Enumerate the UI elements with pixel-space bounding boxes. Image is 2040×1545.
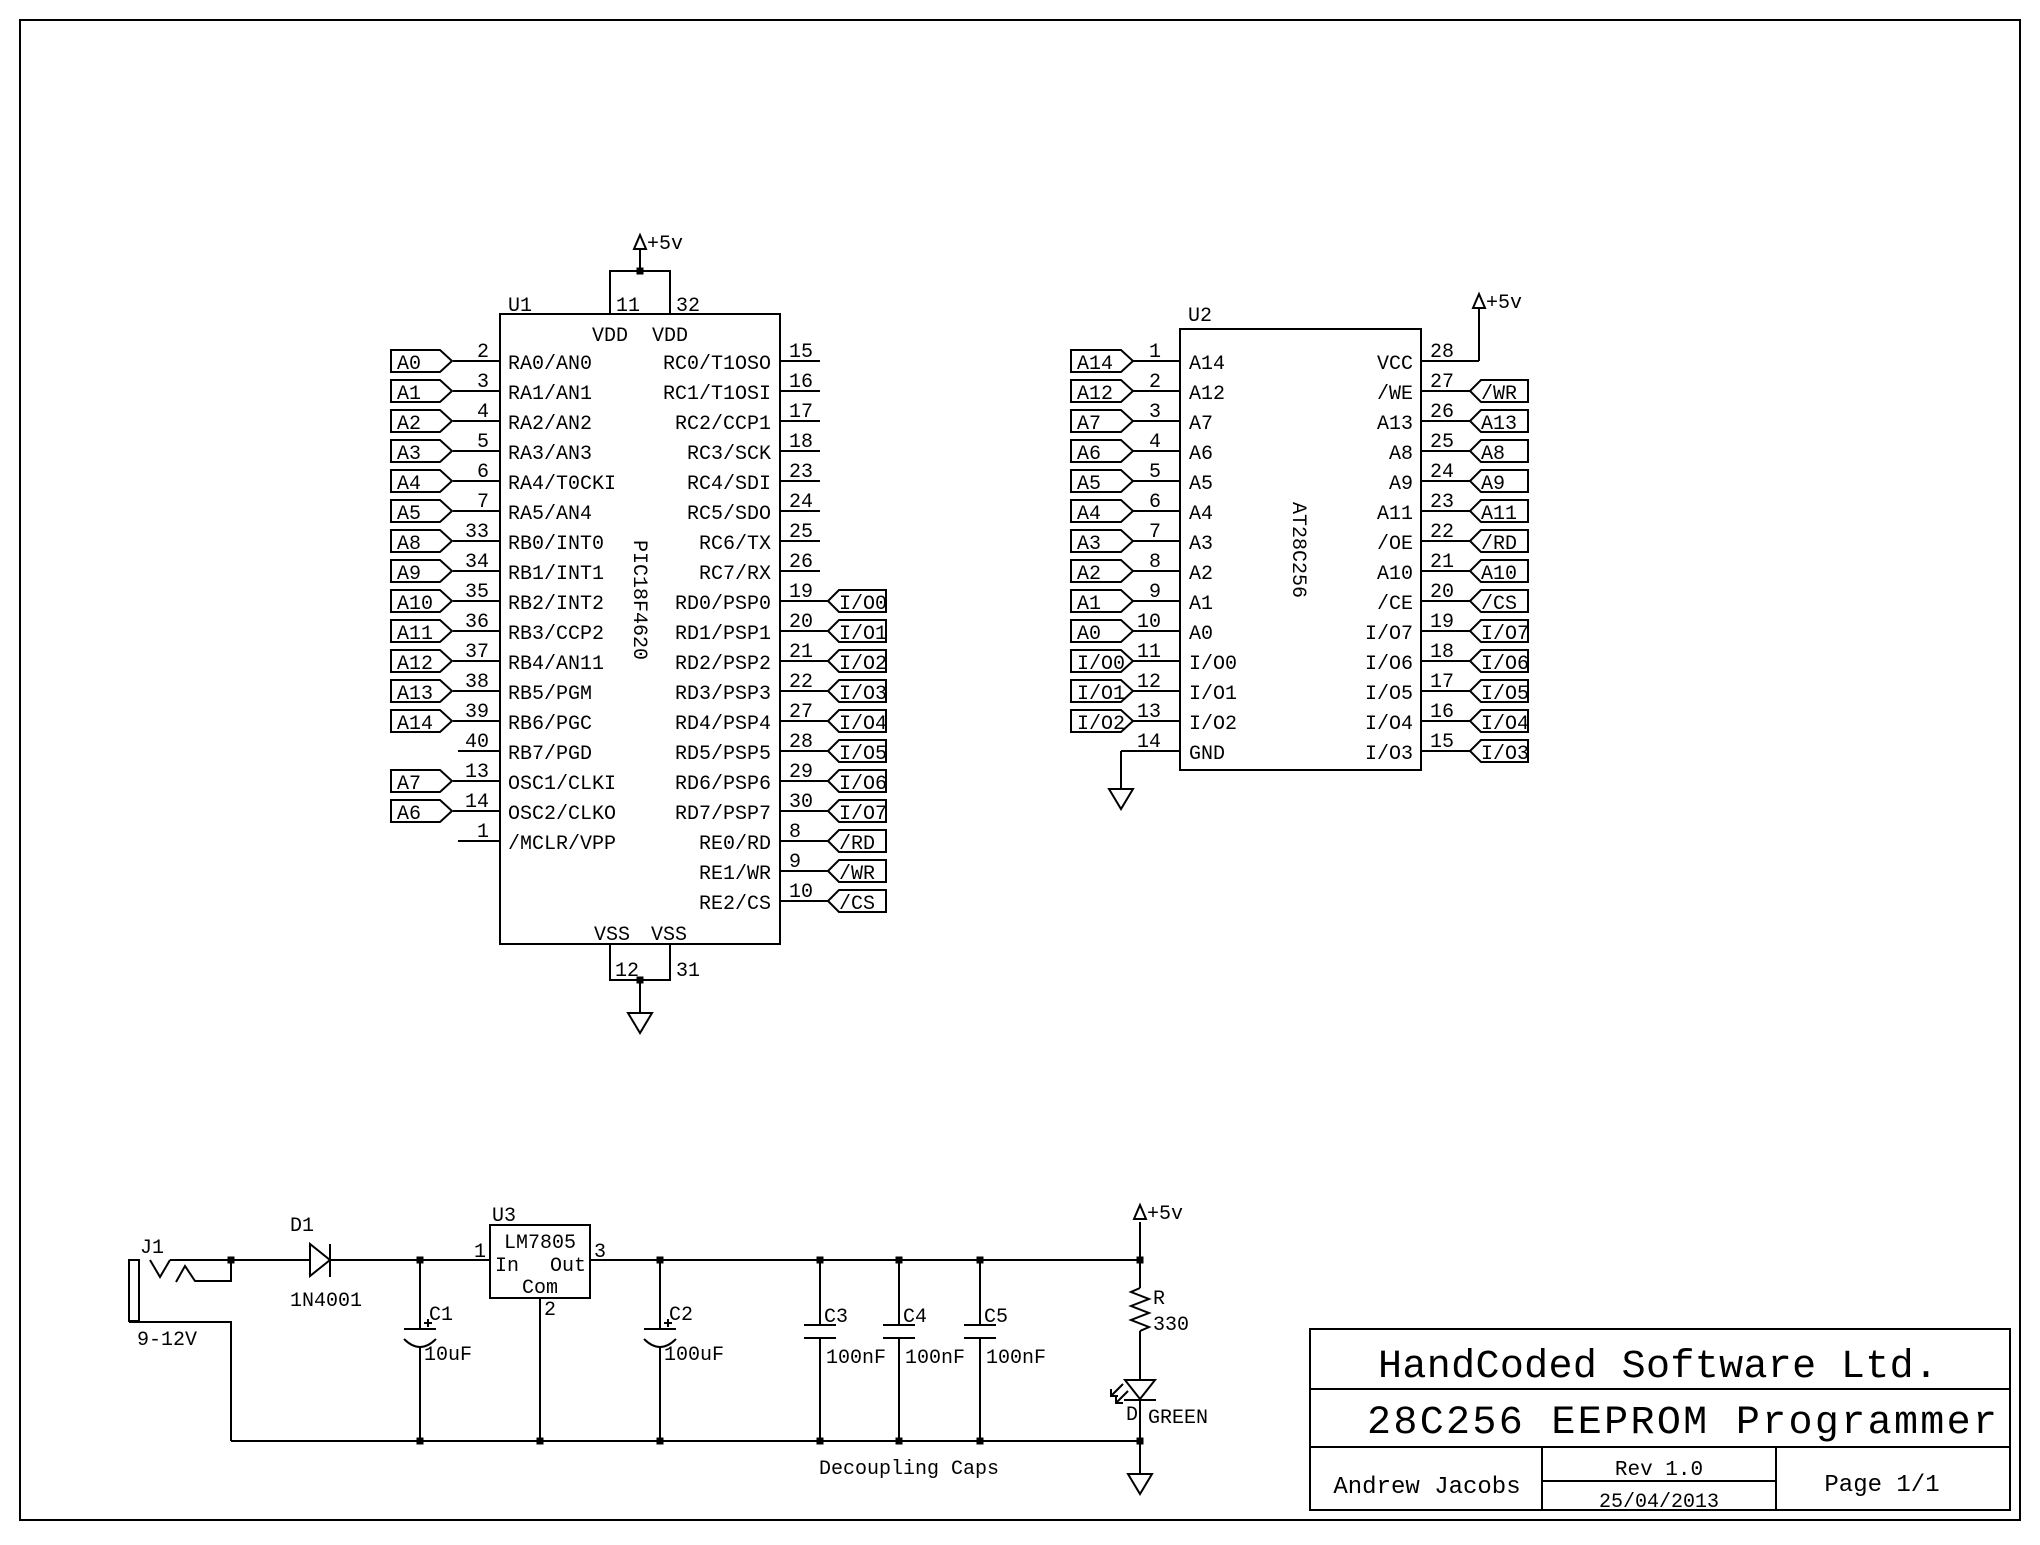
- U1 VSS power connector (pins 12, 31): [594, 924, 700, 983]
- svg-text:4: 4: [477, 401, 489, 424]
- svg-text:RC0/T1OSO: RC0/T1OSO: [663, 353, 771, 376]
- node A1 flag: [391, 380, 452, 406]
- U1 pin 30 RD7/PSP7 wire: [675, 791, 828, 826]
- wire U2 GND to ground: [1120, 751, 1122, 789]
- node I/O1 flag: [828, 620, 887, 646]
- svg-text:A3: A3: [397, 443, 421, 466]
- node A12 flag: [391, 650, 452, 676]
- connector J1 DC jack 9-12V: [129, 1237, 231, 1352]
- svg-text:C3: C3: [824, 1306, 848, 1329]
- svg-text:27: 27: [789, 701, 813, 724]
- capacitor C1 10uF: [404, 1260, 472, 1441]
- svg-text:100nF: 100nF: [905, 1347, 965, 1370]
- svg-text:9: 9: [1149, 581, 1161, 604]
- U1 pin 7 RA5/AN4 wire: [453, 491, 592, 526]
- svg-text:RC5/SDO: RC5/SDO: [687, 503, 771, 526]
- junction: [657, 1438, 664, 1445]
- svg-text:A13: A13: [1481, 413, 1517, 436]
- svg-text:26: 26: [1430, 401, 1454, 424]
- U1 pin 36 RB3/CCP2 wire: [453, 611, 604, 646]
- junction: [977, 1438, 984, 1445]
- svg-text:I/O0: I/O0: [839, 593, 887, 616]
- svg-text:I/O1: I/O1: [1189, 683, 1237, 706]
- svg-text:OSC2/CLKO: OSC2/CLKO: [508, 803, 616, 826]
- svg-text:31: 31: [676, 960, 700, 983]
- node A7 flag: [1071, 410, 1133, 436]
- node A0 flag: [1071, 620, 1133, 646]
- ground (U1): [628, 1013, 652, 1033]
- svg-text:/RD: /RD: [839, 833, 875, 856]
- svg-text:16: 16: [789, 371, 813, 394]
- node /RD flag: [828, 830, 886, 856]
- svg-text:12: 12: [615, 960, 639, 983]
- node I/O3 flag: [1470, 740, 1529, 766]
- wire jack tip to D1: [170, 1259, 309, 1261]
- U2 pin 3 A7 wire: [1133, 401, 1213, 436]
- svg-text:I/O0: I/O0: [1189, 653, 1237, 676]
- svg-text:1: 1: [474, 1241, 486, 1264]
- svg-text:19: 19: [789, 581, 813, 604]
- svg-text:RE1/WR: RE1/WR: [699, 863, 771, 886]
- svg-text:15: 15: [1430, 731, 1454, 754]
- svg-text:A10: A10: [1377, 563, 1413, 586]
- svg-text:21: 21: [1430, 551, 1454, 574]
- ground (power rail): [1128, 1474, 1152, 1494]
- svg-text:I/O5: I/O5: [839, 743, 887, 766]
- svg-text:37: 37: [465, 641, 489, 664]
- svg-text:I/O6: I/O6: [1365, 653, 1413, 676]
- svg-text:I/O2: I/O2: [1189, 713, 1237, 736]
- svg-text:A1: A1: [1189, 593, 1213, 616]
- svg-text:A14: A14: [1189, 353, 1225, 376]
- U1 pin 26 RC7/RX wire: [699, 551, 820, 586]
- svg-text:I/O2: I/O2: [839, 653, 887, 676]
- svg-text:RA2/AN2: RA2/AN2: [508, 413, 592, 436]
- svg-text:24: 24: [1430, 461, 1454, 484]
- svg-text:13: 13: [465, 761, 489, 784]
- junction: [657, 1257, 664, 1264]
- node I/O0 flag: [1071, 650, 1133, 676]
- U2 pin 10 A0 wire: [1133, 611, 1213, 646]
- svg-text:6: 6: [477, 461, 489, 484]
- U1 pin 9 RE1/WR wire: [699, 851, 828, 886]
- svg-text:/RD: /RD: [1481, 533, 1517, 556]
- svg-text:I/O7: I/O7: [1365, 623, 1413, 646]
- U2 pin 12 I/O1 wire: [1133, 671, 1237, 706]
- capacitor C5 100nF: [964, 1260, 1046, 1441]
- svg-text:A11: A11: [397, 623, 433, 646]
- svg-text:100nF: 100nF: [826, 1347, 886, 1370]
- node /CS flag: [1470, 590, 1528, 616]
- svg-text:29: 29: [789, 761, 813, 784]
- svg-text:1: 1: [1149, 341, 1161, 364]
- U2 pin 5 A5 wire: [1133, 461, 1213, 496]
- U2 pin 2 A12 wire: [1133, 371, 1225, 406]
- U2 pin 21 A10 wire: [1377, 551, 1470, 586]
- svg-text:RE2/CS: RE2/CS: [699, 893, 771, 916]
- svg-text:A14: A14: [1077, 353, 1113, 376]
- svg-text:A9: A9: [1389, 473, 1413, 496]
- svg-text:16: 16: [1430, 701, 1454, 724]
- svg-text:A4: A4: [397, 473, 421, 496]
- svg-text:A1: A1: [397, 383, 421, 406]
- svg-text:330: 330: [1153, 1314, 1189, 1337]
- node A13 flag: [1470, 410, 1528, 436]
- junction: [537, 1438, 544, 1445]
- wire R to LED D: [1139, 1331, 1141, 1380]
- U2 pin 17 I/O5 wire: [1365, 671, 1470, 706]
- svg-text:RA1/AN1: RA1/AN1: [508, 383, 592, 406]
- svg-text:A10: A10: [1481, 563, 1517, 586]
- U1 pin 17 RC2/CCP1 wire: [675, 401, 820, 436]
- U1 pin 13 OSC1/CLKI wire: [453, 761, 616, 796]
- svg-text:A7: A7: [397, 773, 421, 796]
- svg-text:I/O2: I/O2: [1077, 713, 1125, 736]
- svg-text:RA0/AN0: RA0/AN0: [508, 353, 592, 376]
- node A3 flag: [391, 440, 452, 466]
- svg-text:24: 24: [789, 491, 813, 514]
- svg-text:100nF: 100nF: [986, 1347, 1046, 1370]
- svg-text:Out: Out: [550, 1255, 586, 1278]
- node A11 flag: [391, 620, 452, 646]
- node A14 flag: [391, 710, 452, 736]
- junction: [637, 268, 644, 275]
- svg-text:A9: A9: [1481, 473, 1505, 496]
- svg-text:14: 14: [465, 791, 489, 814]
- U1 pin 25 RC6/TX wire: [699, 521, 820, 556]
- svg-text:21: 21: [789, 641, 813, 664]
- svg-text:32: 32: [676, 295, 700, 318]
- svg-text:RB6/PGC: RB6/PGC: [508, 713, 592, 736]
- U2 pin 9 A1 wire: [1133, 581, 1213, 616]
- capacitor C3 100nF: [804, 1260, 886, 1441]
- U2 pin 11 I/O0 wire: [1133, 641, 1237, 676]
- U2 pin 22 /OE wire: [1377, 521, 1470, 556]
- svg-text:I/O6: I/O6: [1481, 653, 1529, 676]
- svg-text:I/O4: I/O4: [1481, 713, 1529, 736]
- svg-text:Decoupling Caps: Decoupling Caps: [819, 1458, 999, 1481]
- U2 pin 16 I/O4 wire: [1365, 701, 1470, 736]
- node A9 flag: [391, 560, 452, 586]
- svg-text:/WR: /WR: [1481, 383, 1517, 406]
- svg-text:A8: A8: [1481, 443, 1505, 466]
- U1 VDD power connector (pins 11, 32): [592, 271, 700, 348]
- node I/O5 flag: [828, 740, 887, 766]
- node I/O2 flag: [1071, 710, 1133, 736]
- svg-text:HandCoded Software Ltd.: HandCoded Software Ltd.: [1378, 1345, 1938, 1390]
- resistor R 330: [1131, 1288, 1189, 1337]
- svg-text:14: 14: [1137, 731, 1161, 754]
- svg-text:RD2/PSP2: RD2/PSP2: [675, 653, 771, 676]
- node A3 flag: [1071, 530, 1133, 556]
- U2 pin 20 /CE wire: [1377, 581, 1470, 616]
- svg-text:PIC18F4620: PIC18F4620: [627, 540, 650, 660]
- svg-text:A5: A5: [1077, 473, 1101, 496]
- svg-text:D1: D1: [290, 1215, 314, 1238]
- U2 pin 6 A4 wire: [1133, 491, 1213, 526]
- svg-text:RB4/AN11: RB4/AN11: [508, 653, 604, 676]
- junction: [817, 1438, 824, 1445]
- U2 pin 7 A3 wire: [1133, 521, 1213, 556]
- svg-text:RA3/AN3: RA3/AN3: [508, 443, 592, 466]
- svg-text:A13: A13: [397, 683, 433, 706]
- svg-text:In: In: [495, 1255, 519, 1278]
- svg-text:15: 15: [789, 341, 813, 364]
- svg-text:RC4/SDI: RC4/SDI: [687, 473, 771, 496]
- node A8 flag: [1470, 440, 1528, 466]
- power +5v (U1): [634, 233, 683, 256]
- node A5 flag: [1071, 470, 1133, 496]
- svg-text:11: 11: [1137, 641, 1161, 664]
- node /WR flag: [1470, 380, 1528, 406]
- svg-text:A12: A12: [397, 653, 433, 676]
- svg-text:Com: Com: [522, 1277, 558, 1300]
- svg-text:RB5/PGM: RB5/PGM: [508, 683, 592, 706]
- node A14 flag: [1071, 350, 1133, 376]
- svg-text:A7: A7: [1077, 413, 1101, 436]
- svg-text:3: 3: [1149, 401, 1161, 424]
- svg-text:RD6/PSP6: RD6/PSP6: [675, 773, 771, 796]
- svg-text:A5: A5: [1189, 473, 1213, 496]
- svg-text:RA4/T0CKI: RA4/T0CKI: [508, 473, 616, 496]
- IC U2 AT28C256 body: [1180, 305, 1421, 770]
- svg-text:20: 20: [789, 611, 813, 634]
- U1 pin 38 RB5/PGM wire: [453, 671, 592, 706]
- wire U3 Com pin 2 to bottom rail: [539, 1298, 541, 1441]
- U2 pin 27 /WE wire: [1377, 371, 1470, 406]
- U1 pin 19 RD0/PSP0 wire: [675, 581, 828, 616]
- node A10 flag: [1470, 560, 1528, 586]
- svg-text:3: 3: [477, 371, 489, 394]
- U1 pin 29 RD6/PSP6 wire: [675, 761, 828, 796]
- svg-text:RD5/PSP5: RD5/PSP5: [675, 743, 771, 766]
- svg-text:A6: A6: [1077, 443, 1101, 466]
- U1 pin 20 RD1/PSP1 wire: [675, 611, 828, 646]
- node A10 flag: [391, 590, 452, 616]
- node I/O4 flag: [828, 710, 887, 736]
- node /WR flag: [828, 860, 886, 886]
- node A4 flag: [1071, 500, 1133, 526]
- svg-text:12: 12: [1137, 671, 1161, 694]
- svg-text:23: 23: [1430, 491, 1454, 514]
- node /RD flag: [1470, 530, 1528, 556]
- svg-text:/OE: /OE: [1377, 533, 1413, 556]
- U1 pin 15 RC0/T1OSO wire: [663, 341, 820, 376]
- svg-text:RD0/PSP0: RD0/PSP0: [675, 593, 771, 616]
- svg-text:8: 8: [1149, 551, 1161, 574]
- power +5v (rail): [1134, 1203, 1183, 1226]
- svg-text:/WE: /WE: [1377, 383, 1413, 406]
- node A8 flag: [391, 530, 452, 556]
- node I/O1 flag: [1071, 680, 1133, 706]
- node A0 flag: [391, 350, 452, 376]
- node I/O6 flag: [1470, 650, 1529, 676]
- svg-text:Andrew Jacobs: Andrew Jacobs: [1333, 1474, 1520, 1501]
- svg-text:A13: A13: [1377, 413, 1413, 436]
- svg-text:U3: U3: [492, 1205, 516, 1228]
- svg-text:30: 30: [789, 791, 813, 814]
- svg-text:A0: A0: [1189, 623, 1213, 646]
- junction: [977, 1257, 984, 1264]
- svg-text:A8: A8: [1389, 443, 1413, 466]
- U1 pin 21 RD2/PSP2 wire: [675, 641, 828, 676]
- U2 pin 15 I/O3 wire: [1365, 731, 1470, 766]
- svg-text:U1: U1: [508, 295, 532, 318]
- svg-text:A5: A5: [397, 503, 421, 526]
- junction: [896, 1438, 903, 1445]
- svg-text:2: 2: [1149, 371, 1161, 394]
- svg-text:RC2/CCP1: RC2/CCP1: [675, 413, 771, 436]
- node I/O7 flag: [828, 800, 887, 826]
- svg-text:25/04/2013: 25/04/2013: [1599, 1491, 1719, 1514]
- svg-text:I/O7: I/O7: [839, 803, 887, 826]
- svg-text:10uF: 10uF: [424, 1344, 472, 1367]
- node A6 flag: [391, 800, 452, 826]
- svg-text:VSS: VSS: [594, 924, 630, 947]
- U1 pin 33 RB0/INT0 wire: [453, 521, 604, 556]
- svg-text:34: 34: [465, 551, 489, 574]
- wire U1 VSS to ground: [639, 980, 641, 1013]
- U2 pin 4 A6 wire: [1133, 431, 1213, 466]
- svg-text:40: 40: [465, 731, 489, 754]
- node I/O5 flag: [1470, 680, 1529, 706]
- svg-text:100uF: 100uF: [664, 1344, 724, 1367]
- svg-text:J1: J1: [140, 1237, 164, 1260]
- svg-text:A11: A11: [1377, 503, 1413, 526]
- svg-text:4: 4: [1149, 431, 1161, 454]
- svg-text:C1: C1: [429, 1304, 453, 1327]
- U1 pin 35 RB2/INT2 wire: [453, 581, 604, 616]
- svg-text:I/O3: I/O3: [839, 683, 887, 706]
- U2 pin 19 I/O7 wire: [1365, 611, 1470, 646]
- wire +5v riser to U1 VDD: [639, 249, 641, 271]
- svg-text:+5v: +5v: [1147, 1203, 1183, 1226]
- ground (U2): [1109, 789, 1133, 809]
- svg-text:Rev 1.0: Rev 1.0: [1615, 1459, 1703, 1482]
- junction: [637, 977, 644, 984]
- svg-text:A7: A7: [1189, 413, 1213, 436]
- svg-text:6: 6: [1149, 491, 1161, 514]
- svg-text:A3: A3: [1077, 533, 1101, 556]
- svg-text:19: 19: [1430, 611, 1454, 634]
- svg-text:RE0/RD: RE0/RD: [699, 833, 771, 856]
- U2 pin 25 A8 wire: [1389, 431, 1470, 466]
- svg-text:RB7/PGD: RB7/PGD: [508, 743, 592, 766]
- svg-text:RC7/RX: RC7/RX: [699, 563, 771, 586]
- svg-text:/CS: /CS: [1481, 593, 1517, 616]
- U2 pin 8 A2 wire: [1133, 551, 1213, 586]
- svg-text:18: 18: [1430, 641, 1454, 664]
- svg-text:I/O5: I/O5: [1365, 683, 1413, 706]
- svg-text:13: 13: [1137, 701, 1161, 724]
- diode D1 1N4001: [290, 1215, 362, 1313]
- svg-text:A3: A3: [1189, 533, 1213, 556]
- node A6 flag: [1071, 440, 1133, 466]
- svg-text:22: 22: [1430, 521, 1454, 544]
- svg-text:AT28C256: AT28C256: [1286, 502, 1309, 598]
- U1 pin 40 RB7/PGD wire: [458, 731, 592, 766]
- U2 pin 24 A9 wire: [1389, 461, 1470, 496]
- svg-text:9: 9: [789, 851, 801, 874]
- U1 pin 37 RB4/AN11 wire: [453, 641, 604, 676]
- svg-text:RD1/PSP1: RD1/PSP1: [675, 623, 771, 646]
- svg-text:25: 25: [789, 521, 813, 544]
- U1 pin 39 RB6/PGC wire: [453, 701, 592, 736]
- svg-text:U2: U2: [1188, 305, 1212, 328]
- svg-text:25: 25: [1430, 431, 1454, 454]
- svg-text:A0: A0: [1077, 623, 1101, 646]
- svg-text:A6: A6: [397, 803, 421, 826]
- svg-text:GND: GND: [1189, 743, 1225, 766]
- junction: [417, 1257, 424, 1264]
- svg-text:I/O7: I/O7: [1481, 623, 1529, 646]
- junction: [896, 1257, 903, 1264]
- svg-text:17: 17: [1430, 671, 1454, 694]
- node A5 flag: [391, 500, 452, 526]
- svg-text:A0: A0: [397, 353, 421, 376]
- svg-text:Page 1/1: Page 1/1: [1824, 1472, 1939, 1499]
- svg-text:RD4/PSP4: RD4/PSP4: [675, 713, 771, 736]
- svg-text:C2: C2: [669, 1304, 693, 1327]
- U1 pin 10 RE2/CS wire: [699, 881, 828, 916]
- svg-text:A12: A12: [1189, 383, 1225, 406]
- U1 pin 24 RC5/SDO wire: [687, 491, 820, 526]
- svg-text:8: 8: [789, 821, 801, 844]
- node I/O2 flag: [828, 650, 887, 676]
- svg-text:RB3/CCP2: RB3/CCP2: [508, 623, 604, 646]
- svg-text:A9: A9: [397, 563, 421, 586]
- U1 pin 3 RA1/AN1 wire: [453, 371, 592, 406]
- U1 pin 34 RB1/INT1 wire: [453, 551, 604, 586]
- svg-text:28: 28: [789, 731, 813, 754]
- svg-text:RB0/INT0: RB0/INT0: [508, 533, 604, 556]
- svg-text:20: 20: [1430, 581, 1454, 604]
- svg-text:GREEN: GREEN: [1148, 1407, 1208, 1430]
- node I/O6 flag: [828, 770, 887, 796]
- regulator U3 LM7805: [474, 1205, 606, 1322]
- wire bottom rail: [231, 1440, 1140, 1442]
- IC U1 PIC18F4620 body: [500, 295, 780, 944]
- node A4 flag: [391, 470, 452, 496]
- svg-text:RC6/TX: RC6/TX: [699, 533, 771, 556]
- svg-text:1: 1: [477, 821, 489, 844]
- svg-text:10: 10: [789, 881, 813, 904]
- svg-text:D: D: [1126, 1404, 1138, 1427]
- node A2 flag: [1071, 560, 1133, 586]
- svg-text:A12: A12: [1077, 383, 1113, 406]
- LED D GREEN: [1111, 1380, 1208, 1441]
- node /CS flag: [828, 890, 886, 916]
- svg-text:/CS: /CS: [839, 893, 875, 916]
- capacitor C2 100uF: [644, 1260, 724, 1441]
- svg-text:A2: A2: [397, 413, 421, 436]
- svg-text:11: 11: [616, 295, 640, 318]
- svg-text:22: 22: [789, 671, 813, 694]
- U1 pin 18 RC3/SCK wire: [687, 431, 820, 466]
- svg-text:+5v: +5v: [1486, 292, 1522, 315]
- node I/O4 flag: [1470, 710, 1529, 736]
- svg-text:A14: A14: [397, 713, 433, 736]
- svg-text:36: 36: [465, 611, 489, 634]
- svg-text:A2: A2: [1077, 563, 1101, 586]
- svg-text:23: 23: [789, 461, 813, 484]
- svg-text:/WR: /WR: [839, 863, 875, 886]
- svg-text:I/O6: I/O6: [839, 773, 887, 796]
- svg-text:33: 33: [465, 521, 489, 544]
- svg-text:I/O4: I/O4: [1365, 713, 1413, 736]
- U2 pin 26 A13 wire: [1377, 401, 1470, 436]
- junction: [1137, 1257, 1144, 1264]
